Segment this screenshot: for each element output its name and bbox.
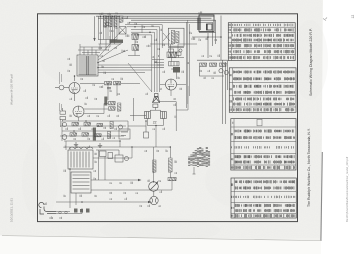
IF transformer T1 bbox=[77, 55, 98, 76]
wire coupling to power bbox=[66, 141, 120, 150]
resistor R14 bbox=[72, 123, 79, 126]
wire antenna lead bbox=[94, 16, 96, 41]
terminal strip marks bbox=[74, 209, 90, 213]
condenser C8 bbox=[119, 125, 123, 129]
loudspeaker cone bbox=[153, 94, 160, 103]
resistor R10 bbox=[114, 82, 121, 85]
table rows bbox=[231, 119, 296, 170]
wire legend stub bbox=[193, 167, 196, 174]
wire nested corners to speaker bbox=[152, 60, 164, 92]
resistor R17 bbox=[110, 122, 113, 129]
svg-text:Schematic Wiring Diagram Model: Schematic Wiring Diagram Model 220 R.P. bbox=[309, 28, 313, 96]
wire can cross X bbox=[163, 33, 170, 41]
wire V2 plate bbox=[74, 76, 76, 81]
wire speaker leads bbox=[147, 102, 176, 132]
table rows bbox=[228, 23, 295, 61]
wire osc row a bbox=[99, 43, 122, 45]
wire cord to set bbox=[56, 208, 82, 214]
wire V3 rows bbox=[79, 104, 109, 122]
wire IF fan leads bbox=[98, 31, 164, 72]
svg-text:12: 12 bbox=[351, 15, 355, 19]
condenser C7 bbox=[62, 135, 67, 140]
resistor R2 bbox=[109, 16, 112, 27]
resistor R16 bbox=[97, 124, 103, 127]
schematic border frame bbox=[38, 14, 298, 222]
paper right edge bbox=[321, 152, 322, 241]
cathode resistor network left bbox=[60, 108, 66, 121]
trimmer condenser C1 bbox=[105, 22, 109, 26]
resistor R19 bbox=[82, 133, 89, 136]
resistor R20 bbox=[95, 134, 102, 137]
left small text marks bbox=[60, 72, 62, 127]
table 3 title tick bbox=[257, 119, 262, 126]
arrow heater bbox=[148, 201, 152, 203]
pilot lamp bbox=[150, 196, 158, 204]
rectifier socket block bbox=[100, 151, 113, 159]
resistor R1 bbox=[104, 16, 107, 27]
resistor R11 bbox=[109, 102, 116, 105]
antenna arrow bbox=[93, 38, 95, 41]
paper bottom edge bbox=[2, 236, 321, 241]
wire gang top link bbox=[150, 44, 197, 57]
output connector bbox=[144, 126, 149, 138]
electrolytic bar C12 bbox=[104, 97, 107, 106]
speaker terminal box bbox=[153, 104, 158, 107]
wire nest line 1 bbox=[131, 20, 216, 44]
table rows bbox=[231, 178, 296, 218]
resistor R8 bbox=[220, 63, 227, 66]
electrolytic condenser C3 bbox=[219, 69, 223, 73]
ground G2 bbox=[98, 143, 102, 148]
wire volume riser bbox=[154, 132, 162, 181]
coil L2 winding bbox=[171, 30, 174, 44]
svg-text:file:///C|/Users/Main/Download: file:///C|/Users/Main/Downloads/wurlitze… bbox=[345, 157, 349, 222]
oscillator coil shield can T4 bbox=[168, 28, 184, 46]
arrow B+ bbox=[138, 179, 142, 181]
wire can bottom row bbox=[199, 32, 216, 34]
wire tone branch bbox=[146, 147, 172, 190]
wire output links bbox=[160, 58, 186, 97]
wire audio feed bbox=[120, 121, 154, 147]
resistor R7 bbox=[210, 63, 217, 66]
resistor R15 bbox=[84, 123, 91, 126]
resistor R9 bbox=[105, 82, 112, 85]
tube V3 75 second detector bbox=[73, 106, 84, 117]
tube V4 42 output bbox=[166, 79, 177, 90]
C9 bbox=[168, 178, 176, 181]
wire b-plus trunk bbox=[93, 86, 188, 158]
resistor R21 bbox=[108, 132, 111, 139]
coil L3 winding bbox=[176, 31, 179, 43]
ground G1 bbox=[74, 142, 78, 147]
wire drop group mid bbox=[128, 25, 142, 56]
coupling box bbox=[169, 62, 179, 66]
oscillator coil dark band bbox=[110, 40, 124, 43]
wire nest line 2 bbox=[129, 22, 213, 46]
wire right bus riser bbox=[220, 16, 222, 61]
resistor R12 bbox=[109, 107, 116, 110]
svg-text:Wurlitzer M-220 RP.pdf: Wurlitzer M-220 RP.pdf bbox=[9, 74, 13, 105]
resistor R6 bbox=[200, 63, 207, 66]
tube V2 6D6 IF amplifier bbox=[69, 83, 80, 94]
coil winding dark band bbox=[198, 18, 201, 31]
wire IF top feeds bbox=[78, 36, 110, 55]
grid resistor R26 bbox=[167, 52, 177, 58]
wire V2 grid row bbox=[80, 83, 104, 85]
wire avc bus bbox=[197, 59, 228, 61]
electrolytic bar C11 bbox=[93, 128, 96, 141]
wire osc vertical group bbox=[99, 16, 120, 44]
C5 bbox=[107, 88, 111, 89]
trimmer cluster under can bbox=[168, 48, 184, 58]
resistor R25 bbox=[169, 158, 173, 172]
output transformer dark block bbox=[173, 67, 180, 73]
power cord and plug bbox=[39, 202, 56, 214]
wire right riser 3 bbox=[227, 60, 229, 90]
table rows bbox=[229, 68, 296, 113]
svg-text:22: 22 bbox=[153, 121, 157, 125]
wire top bus A bbox=[96, 15, 215, 17]
antenna coil shield can bbox=[199, 15, 214, 32]
wire heater rows bbox=[56, 180, 150, 202]
label box (tone switch) bbox=[119, 129, 130, 139]
component value labels bbox=[45, 12, 219, 220]
wire right riser bbox=[222, 60, 224, 124]
filter choke L1 bbox=[71, 172, 91, 193]
volume control potentiometer bbox=[149, 182, 159, 192]
wire dial cord diagonal bbox=[128, 63, 152, 92]
electrolytic condenser C4 bbox=[224, 70, 228, 74]
coil L1 winding bbox=[120, 16, 124, 23]
wire pot to lamp bbox=[153, 191, 155, 196]
resistor R5 bbox=[132, 45, 139, 51]
resistor R24 bbox=[153, 160, 156, 173]
condenser C6 bbox=[63, 123, 67, 127]
wire avc return bbox=[200, 67, 225, 77]
svg-text:10/13/2021, 11:51: 10/13/2021, 11:51 bbox=[9, 198, 13, 222]
scan noise texture bbox=[0, 0, 1, 1]
wire osc row b bbox=[99, 39, 118, 41]
resistor R4 bbox=[132, 34, 139, 40]
resistor R13 bbox=[118, 103, 121, 111]
wire mid nested corners bbox=[125, 25, 162, 68]
wire center bundle bbox=[186, 20, 189, 108]
wire det row bbox=[108, 84, 140, 101]
wire right riser 2 bbox=[225, 62, 227, 124]
resistor R3 bbox=[114, 16, 117, 27]
mica condenser block bbox=[119, 27, 126, 35]
wire gang drop bbox=[207, 33, 209, 58]
grid condenser C10 bbox=[55, 85, 69, 90]
field coil block F1 bbox=[145, 112, 151, 119]
resistor R18 bbox=[70, 133, 77, 136]
power transformer T3 bbox=[68, 147, 93, 169]
svg-text:The Rudolph Wurlitzer Co., Nor: The Rudolph Wurlitzer Co., North Tonawan… bbox=[307, 128, 311, 207]
paper mottling bbox=[22, 20, 328, 242]
smudge mark bbox=[323, 18, 327, 21]
wire mains riser bbox=[70, 147, 76, 208]
wire coupling rows bbox=[60, 121, 128, 141]
wire top bus B bbox=[98, 17, 212, 19]
wire rectifier drops bbox=[96, 150, 119, 180]
wire speaker link bbox=[130, 98, 146, 121]
fuse holder bbox=[115, 155, 129, 162]
voice coil block F2 bbox=[161, 112, 167, 119]
notes legend list bbox=[188, 148, 210, 167]
wire can link row bbox=[192, 36, 221, 38]
wire V2 cathode bbox=[74, 92, 76, 101]
